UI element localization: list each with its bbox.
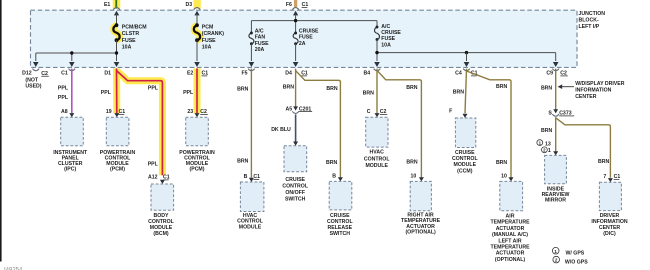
- svg-text:C9: C9: [546, 71, 553, 77]
- wire BRN C9 to C373: [555, 69, 557, 110]
- left page border line: [0, 0, 2, 262]
- svg-text:MODULE: MODULE: [365, 163, 388, 169]
- svg-text:BRN: BRN: [541, 128, 552, 134]
- svg-text:2A: 2A: [299, 41, 306, 47]
- svg-text:BRN: BRN: [237, 86, 248, 92]
- svg-text:FUSE: FUSE: [381, 36, 395, 42]
- terminal D12 / connector C2 (not used): [33, 69, 40, 71]
- feed wire F6 (orange): [294, 0, 297, 7]
- svg-text:7: 7: [603, 174, 606, 180]
- fuse CRUISE FUSE 2A: [293, 33, 298, 44]
- junction node: [115, 51, 118, 54]
- svg-text:CONTROL: CONTROL: [364, 156, 390, 162]
- svg-text:2: 2: [555, 258, 558, 263]
- bus wire to D12 and C1: [36, 52, 117, 54]
- svg-text:A8: A8: [61, 109, 68, 115]
- svg-text:D12: D12: [22, 71, 32, 77]
- svg-text:B: B: [332, 173, 336, 179]
- terminal C1 to IPC: [69, 69, 76, 71]
- wire below crank fuse: [196, 40, 198, 61]
- svg-text:C: C: [367, 109, 371, 115]
- svg-text:PPL: PPL: [58, 86, 69, 92]
- svg-text:(PCM): (PCM): [190, 167, 205, 173]
- svg-text:FUSE: FUSE: [202, 38, 216, 44]
- svg-text:CRUISE: CRUISE: [381, 30, 401, 36]
- svg-text:20A: 20A: [255, 47, 265, 53]
- svg-text:(OPTIONAL): (OPTIONAL): [405, 230, 436, 236]
- inline connector C201, pin A5: [293, 106, 298, 110]
- svg-text:W/O GPS: W/O GPS: [565, 259, 588, 265]
- svg-text:PPL: PPL: [148, 161, 159, 167]
- svg-text:PPL: PPL: [183, 90, 194, 96]
- svg-text:10A: 10A: [381, 42, 391, 48]
- junction node: [294, 19, 297, 22]
- svg-text:PCM/BCM: PCM/BCM: [122, 24, 147, 30]
- svg-text:HVAC: HVAC: [370, 149, 385, 155]
- wire BRN B4 branch to right air temperature actuator: [377, 70, 421, 177]
- wire BRN D4 branch to cruise release switch: [296, 71, 341, 178]
- body control module (BCM): [151, 184, 174, 210]
- svg-text:1: 1: [548, 148, 551, 154]
- svg-text:CRUISE: CRUISE: [285, 177, 305, 183]
- HVAC control module: [240, 182, 264, 212]
- svg-text:TEMPERATURE: TEMPERATURE: [490, 220, 530, 226]
- svg-text:ACTUATOR: ACTUATOR: [496, 226, 525, 232]
- bus wire to C4 and C9: [377, 52, 556, 54]
- svg-text:USED): USED): [25, 84, 41, 90]
- terminal F5: [248, 69, 255, 71]
- wire PPL C1 to IPC: [71, 69, 73, 113]
- svg-text:BRN: BRN: [453, 90, 464, 96]
- svg-text:W/DISPLAY DRIVER: W/DISPLAY DRIVER: [575, 81, 625, 87]
- junction node: [70, 51, 73, 54]
- powertrain control module (PCM): [106, 117, 129, 145]
- terminal C9 / connector C2: [552, 69, 559, 71]
- svg-text:13: 13: [545, 141, 551, 147]
- svg-text:(CCM): (CCM): [457, 168, 473, 174]
- svg-text:MIRROR: MIRROR: [545, 197, 566, 203]
- svg-text:INFORMATION: INFORMATION: [575, 88, 611, 94]
- wire BRN C373 to rearview mirror: [555, 117, 557, 151]
- instrument panel cluster (IPC): [61, 117, 84, 145]
- driver information center (DIC): [599, 182, 621, 210]
- svg-text:LEFT AIR: LEFT AIR: [498, 238, 521, 244]
- cruise control release switch: [329, 181, 352, 210]
- svg-text:(IPC): (IPC): [64, 167, 76, 173]
- svg-text:JUNCTION: JUNCTION: [579, 11, 606, 17]
- wire PPL D1 branch to BCM (highlighted): [117, 71, 163, 176]
- svg-text:BLOCK-: BLOCK-: [579, 18, 599, 24]
- svg-text:MODULE: MODULE: [239, 224, 262, 230]
- svg-text:FUSE: FUSE: [122, 38, 136, 44]
- svg-text:MODULE: MODULE: [454, 162, 477, 168]
- svg-text:FUSE: FUSE: [299, 35, 313, 41]
- svg-text:SWITCH: SWITCH: [330, 231, 351, 237]
- wire PPL E2 to PCM (highlighted): [194, 68, 201, 113]
- svg-text:FAN: FAN: [255, 35, 266, 41]
- svg-text:C1: C1: [61, 71, 68, 77]
- svg-text:BRN: BRN: [283, 85, 294, 91]
- wire PPL D1 to PCM (highlighted): [113, 68, 120, 113]
- svg-text:BRN: BRN: [598, 159, 609, 165]
- pin 13 (w/ GPS) / 1 (w/o GPS): [537, 140, 543, 146]
- feed wire E1 (yellow highlight, dk grn): [113, 0, 121, 9]
- svg-text:CENTER: CENTER: [575, 94, 597, 100]
- svg-text:BRN: BRN: [496, 84, 507, 90]
- svg-text:S: S: [548, 111, 552, 117]
- svg-text:ACTUATOR: ACTUATOR: [496, 251, 525, 257]
- cruise control module (CCM): [455, 118, 475, 148]
- svg-text:A/C: A/C: [381, 24, 390, 30]
- svg-text:(NOT: (NOT: [25, 77, 39, 83]
- fuse A/C FAN FUSE 20A: [249, 33, 254, 44]
- wire BRN D4 to C201: [295, 69, 297, 108]
- wire BRN F5 to HVAC: [250, 69, 252, 178]
- legend w/ GPS, w/o GPS: [552, 247, 559, 254]
- inline connector C373, pin S: [553, 109, 558, 113]
- wire BRN C4 branch to left air temperature actuator: [467, 71, 512, 178]
- wire below cluster fuse: [116, 40, 118, 61]
- note arrow w/display driver information center: [560, 86, 574, 88]
- svg-text:LEFT I/P: LEFT I/P: [579, 24, 600, 30]
- svg-text:1: 1: [554, 249, 557, 254]
- svg-text:CRUISE: CRUISE: [455, 150, 475, 156]
- wire BRN C4 to CCM: [465, 69, 467, 114]
- svg-text:10A: 10A: [202, 45, 212, 51]
- svg-text:(MANUAL A/C): (MANUAL A/C): [492, 232, 528, 238]
- svg-text:PPL: PPL: [148, 85, 159, 91]
- svg-text:D1: D1: [104, 71, 111, 77]
- terminal C4 / connector C1: [463, 69, 470, 71]
- cruise control on/off switch: [284, 146, 307, 172]
- svg-text:BRN: BRN: [326, 86, 337, 92]
- wire below a/c cruise fuse: [376, 40, 378, 62]
- right air temperature actuator (optional): [410, 181, 431, 210]
- fuse A/C CRUISE FUSE 10A: [376, 21, 378, 27]
- svg-text:BRN: BRN: [406, 159, 417, 165]
- terminal B4: [374, 69, 381, 71]
- svg-text:SWITCH: SWITCH: [285, 197, 306, 203]
- wire DK BLU to cruise on/off switch: [295, 114, 297, 142]
- svg-text:AIR: AIR: [506, 214, 515, 220]
- powertrain control module (PCM) 2: [186, 117, 209, 145]
- svg-text:C4: C4: [455, 71, 462, 77]
- svg-text:ON/OFF: ON/OFF: [285, 190, 305, 196]
- svg-text:F5: F5: [241, 71, 247, 77]
- svg-text:A5: A5: [286, 106, 293, 112]
- svg-text:10A: 10A: [122, 45, 132, 51]
- wire BRN branch to driver information center: [556, 118, 611, 178]
- exit arrows at junction block bottom: [33, 62, 39, 67]
- svg-text:PPL: PPL: [101, 90, 112, 96]
- svg-text:F: F: [449, 109, 452, 115]
- svg-text:A12: A12: [148, 175, 158, 181]
- air temperature actuator (manual A/C) / left air temperature actuator (optional): [500, 181, 523, 210]
- svg-text:D4: D4: [285, 71, 292, 77]
- F6 feed bus: [295, 21, 297, 33]
- svg-text:B4: B4: [364, 71, 371, 77]
- svg-text:(PCM): (PCM): [110, 167, 125, 173]
- svg-text:TEMPERATURE: TEMPERATURE: [490, 245, 530, 251]
- svg-text:BRN: BRN: [326, 160, 337, 166]
- svg-text:CONTROL: CONTROL: [282, 184, 308, 190]
- svg-text:B: B: [244, 174, 248, 180]
- svg-text:CRUISE: CRUISE: [299, 28, 319, 34]
- wire BRN B4 to HVAC module: [376, 69, 378, 114]
- fuse PCM (CRANK) FUSE 10A (hot): [194, 25, 200, 40]
- svg-text:19: 19: [106, 109, 112, 115]
- junction node: [375, 51, 378, 54]
- svg-text:10: 10: [411, 173, 417, 179]
- svg-text:(BCM): (BCM): [153, 231, 169, 237]
- svg-text:BRN: BRN: [237, 158, 248, 164]
- svg-text:23: 23: [187, 109, 193, 115]
- svg-text:CLSTR: CLSTR: [122, 31, 140, 37]
- svg-text:BRN: BRN: [541, 85, 552, 91]
- svg-text:BRN: BRN: [406, 85, 417, 91]
- svg-text:DK BLU: DK BLU: [271, 127, 291, 133]
- svg-text:E2: E2: [187, 71, 193, 77]
- svg-text:(CRANK): (CRANK): [202, 31, 224, 37]
- svg-text:CONTROL: CONTROL: [452, 156, 478, 162]
- svg-text:(DIC): (DIC): [603, 231, 616, 237]
- svg-text:D3: D3: [186, 2, 193, 8]
- svg-text:(OPTIONAL): (OPTIONAL): [495, 257, 526, 263]
- svg-text:10: 10: [501, 173, 507, 179]
- inside rearview mirror: [545, 155, 567, 183]
- svg-text:W/ GPS: W/ GPS: [566, 250, 585, 256]
- svg-text:F6: F6: [286, 2, 292, 8]
- svg-text:BRN: BRN: [496, 160, 507, 166]
- svg-text:FUSE: FUSE: [255, 41, 269, 47]
- svg-text:BRN: BRN: [363, 90, 374, 96]
- junction node: [465, 51, 468, 54]
- fuse PCM/BCM CLSTR FUSE 10A (hot): [113, 25, 119, 40]
- HVAC control module 2: [366, 117, 388, 147]
- feed wire D3 (yellow highlight): [194, 0, 201, 9]
- svg-text:E1: E1: [104, 2, 110, 8]
- svg-text:PPL: PPL: [58, 95, 69, 101]
- junction block (dashed box, left I/P): [31, 10, 578, 67]
- svg-text:A/C: A/C: [255, 28, 264, 34]
- svg-text:PCM: PCM: [202, 24, 214, 30]
